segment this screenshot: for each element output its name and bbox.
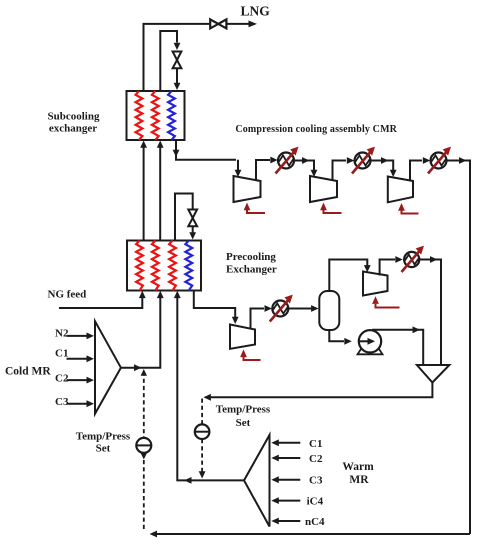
- wire iC4 feed into M2: [271, 497, 300, 504]
- wire cooler H1 to compressor K2: [294, 157, 317, 177]
- wire arrowhead into JT valve VC1: [174, 43, 181, 50]
- svg-text:C3: C3: [55, 396, 69, 408]
- wire cooler H3 to right side down-comer: [447, 157, 471, 534]
- svg-text:Set: Set: [236, 417, 251, 429]
- compressor KW1 (WMR stage 1): [230, 325, 255, 349]
- coil E1 cold pass (WMR return, blue): [185, 241, 192, 291]
- wire M1 outlet to precooler (cold MR feed): [121, 291, 164, 371]
- svg-text:exchanger: exchanger: [49, 123, 97, 135]
- wire K3 discharge to cooler H3: [410, 157, 430, 181]
- svg-text:Precooling: Precooling: [226, 251, 276, 263]
- valve VW1 (JT valve above precooler): [188, 210, 197, 227]
- svg-text:Subcooling: Subcooling: [48, 111, 100, 123]
- svg-text:Set: Set: [96, 443, 111, 455]
- wire N2 feed into M1: [67, 333, 95, 340]
- signal dashed line for left Temp/Press Set: [143, 372, 145, 533]
- valve V-LNG (open gate valve on LNG line): [210, 19, 226, 28]
- cooler HW1 (WMR interstage cooler): [270, 295, 293, 322]
- instrument SET1 (Temp/Press Set circle, left): [136, 438, 151, 460]
- energy stream red arrow into K1: [244, 203, 265, 214]
- compressor K2 (CMR stage 2): [310, 176, 337, 202]
- compressor KW2 (WMR stage 2): [363, 272, 388, 296]
- svg-text:nC4: nC4: [305, 516, 325, 528]
- node Temp/Press Set label (left): [76, 431, 131, 455]
- compressor K3 (CMR stage 3): [388, 177, 413, 203]
- svg-text:Temp/Press: Temp/Press: [216, 404, 271, 416]
- wire C1 feed into M1: [67, 355, 95, 362]
- wire cooler HW2 to mixer funnel: [419, 256, 441, 365]
- wire CMR return from subcooler bottom to compressor train: [173, 140, 236, 160]
- wire NG from precooler top to subcooler bottom: [140, 141, 147, 241]
- node Warm MR label: [342, 461, 374, 486]
- coil E1 hot pass 1 (NG, red): [136, 241, 143, 291]
- svg-text:LNG: LNG: [241, 4, 271, 19]
- wire cooler HW1 to separator D1: [288, 305, 318, 312]
- wire K2 discharge to cooler H2: [333, 157, 355, 181]
- svg-text:C3: C3: [309, 475, 323, 487]
- svg-text:Cold MR: Cold MR: [5, 366, 51, 378]
- pump P1 (WMR liquid pump): [358, 330, 383, 354]
- wire C2 feed into M1: [67, 377, 95, 384]
- wire arrowhead up into cold MR line (set target): [141, 369, 147, 376]
- node Temp/Press Set label (right): [216, 404, 271, 429]
- wire WMR from precooler bottom to compressor KW1: [194, 291, 239, 325]
- compressor K1 (CMR stage 1): [234, 176, 261, 202]
- mixer M3 (funnel joining pump and cooler streams): [417, 365, 450, 383]
- separator D1 (WMR interstage KO drum): [319, 291, 339, 330]
- mixer M1 (Cold MR make-up mixer, triangle pointing right): [95, 321, 121, 414]
- svg-text:Warm: Warm: [342, 461, 374, 473]
- coil E2 hot pass 2 (CMR, red): [152, 91, 159, 140]
- signal dashed line for right Temp/Press Set: [201, 399, 203, 472]
- svg-text:Exchanger: Exchanger: [226, 264, 277, 276]
- wire D1 vapour to compressor KW2: [329, 260, 370, 292]
- wire CMR vapour from subcooler top to JT valve: [160, 31, 177, 91]
- energy stream red arrow into KW1: [240, 349, 260, 360]
- instrument SET2 (Temp/Press Set circle, right): [195, 424, 210, 478]
- wire CMR from precooler top to subcooler bottom: [157, 141, 164, 241]
- coil E1 hot pass 2 (CMR, red): [152, 241, 159, 291]
- valve VC1 (JT valve above subcooler): [173, 52, 182, 69]
- svg-text:C1: C1: [309, 438, 322, 450]
- cooler H1 (air cooler, CMR stage 1): [276, 147, 299, 174]
- wire LNG outlet arrow: [227, 21, 257, 28]
- wire from valve VW1 into precooler cold pass: [189, 226, 196, 239]
- wire D1 liquid to pump P1: [329, 330, 352, 345]
- heat exchanger E2 Subcooling exchanger shell: [127, 91, 185, 140]
- coil E2 hot pass 1 (NG, red): [136, 91, 143, 140]
- wire C3 feed into M2: [271, 476, 300, 483]
- wire M2 outlet to precooler (warm MR feed): [174, 291, 244, 484]
- wire WMR vapour from precooler top to JT valve VW1: [175, 194, 193, 241]
- coil E2 cold pass (CMR return, blue): [168, 91, 175, 140]
- svg-text:Compression cooling assembly C: Compression cooling assembly CMR: [235, 124, 397, 135]
- svg-text:C1: C1: [55, 348, 68, 360]
- wire pump P1 discharge to mixer funnel: [372, 326, 423, 365]
- node Precooling Exchanger label: [226, 251, 277, 276]
- cooler HW2 (WMR aftercooler): [402, 246, 425, 272]
- node Subcooling exchanger label: [48, 111, 100, 135]
- svg-text:Temp/Press: Temp/Press: [76, 431, 131, 443]
- mixer M2 (Warm MR make-up mixer, triangle pointing left): [244, 435, 270, 527]
- energy stream red arrow into K2: [320, 203, 341, 214]
- svg-text:iC4: iC4: [307, 496, 324, 508]
- svg-text:C2: C2: [55, 372, 69, 384]
- svg-text:C2: C2: [309, 453, 323, 465]
- cooler H2 (air cooler, CMR stage 2): [352, 147, 375, 174]
- wire cooler H2 to compressor K3: [371, 157, 397, 177]
- wire nC4 feed into M2: [271, 518, 300, 525]
- wire C1 feed into M2: [271, 439, 300, 446]
- heat exchanger E1 Precooling Exchanger shell: [127, 241, 201, 291]
- wire C3 feed into M1: [67, 400, 95, 407]
- wire LNG product line from subcooler top: [144, 24, 210, 91]
- wire CMR recycle along bottom (right to left): [150, 531, 471, 538]
- wire NG feed into precooler: [59, 291, 146, 308]
- svg-text:NG feed: NG feed: [48, 288, 87, 300]
- coil E1 hot pass 3 (WMR, red): [169, 241, 176, 291]
- energy stream red arrow into K3: [398, 203, 418, 214]
- svg-text:MR: MR: [349, 474, 369, 486]
- wire from valve VC1 into subcooler cold pass: [174, 68, 181, 90]
- energy stream red arrow into KW2: [372, 296, 399, 307]
- wire funnel outlet to recycle arrow (Temp/Press Set point): [203, 383, 432, 401]
- wire K1 discharge to cooler H1: [256, 157, 278, 181]
- wire into compressor K1: [235, 160, 242, 177]
- wire KW1 discharge to cooler HW1: [251, 305, 273, 329]
- wire KW2 discharge to cooler HW2: [380, 256, 403, 275]
- wire C2 feed into M2: [271, 455, 300, 462]
- cooler H3 (air cooler, CMR stage 3): [428, 147, 451, 174]
- svg-text:N2: N2: [55, 328, 69, 340]
